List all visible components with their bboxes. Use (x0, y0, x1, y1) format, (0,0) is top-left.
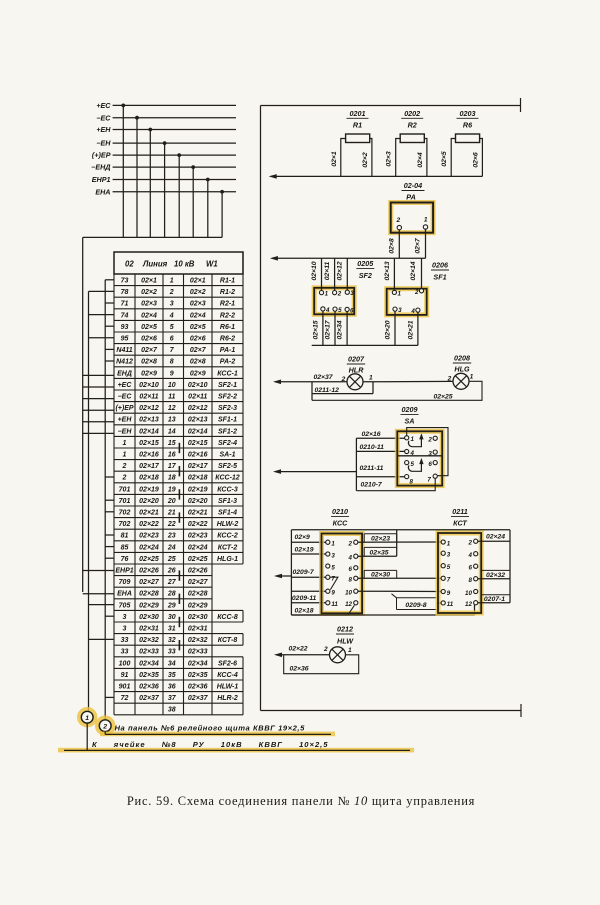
svg-text:6: 6 (428, 461, 432, 468)
terminal table W1 grid (114, 252, 243, 715)
resistor R6 0203 (441, 109, 482, 176)
wire resistor line with arrow (269, 174, 483, 179)
svg-text:11: 11 (447, 601, 454, 608)
svg-text:6: 6 (468, 565, 472, 572)
wire SF1 top leg 02x14 (410, 258, 422, 288)
svg-text:02×10: 02×10 (311, 261, 318, 280)
svg-text:1: 1 (398, 290, 402, 297)
wire KCC bundle stubs (291, 534, 347, 615)
svg-text:02×32: 02×32 (486, 572, 505, 579)
svg-text:0202: 0202 (404, 109, 420, 118)
wire cable note to panel 6 (100, 724, 335, 737)
svg-text:11: 11 (331, 601, 338, 608)
wire SF2 bottom leg 02×17 (324, 311, 335, 345)
svg-text:0209-7: 0209-7 (293, 569, 315, 576)
svg-text:10: 10 (345, 590, 352, 597)
wire bundle A (bus trunk down left side) (82, 237, 84, 592)
svg-text:2: 2 (102, 724, 107, 731)
svg-text:4: 4 (348, 555, 353, 562)
svg-text:SF1-4: SF1-4 (218, 510, 237, 517)
svg-text:1: 1 (325, 291, 329, 298)
svg-text:1: 1 (170, 278, 174, 285)
svg-text:02×21: 02×21 (188, 510, 208, 517)
svg-text:02×23: 02×23 (139, 533, 159, 540)
wire lower SF line (312, 344, 418, 346)
svg-text:701: 701 (119, 498, 131, 505)
svg-text:HLR-2: HLR-2 (217, 695, 238, 702)
svg-text:76: 76 (121, 556, 129, 563)
svg-text:33: 33 (121, 649, 129, 656)
svg-text:18: 18 (168, 475, 176, 482)
svg-text:3: 3 (398, 307, 402, 314)
svg-text:02×16: 02×16 (139, 452, 159, 459)
svg-text:23: 23 (167, 533, 176, 540)
meter PA 02-04 (391, 181, 433, 233)
svg-text:6: 6 (350, 307, 354, 314)
svg-text:3: 3 (170, 301, 174, 308)
svg-text:36: 36 (168, 684, 176, 691)
bus (+)ЕР (92, 151, 236, 238)
svg-text:02×32: 02×32 (139, 637, 159, 644)
svg-text:02×33: 02×33 (188, 649, 208, 656)
svg-text:КСС-4: КСС-4 (217, 672, 238, 679)
terminal table W1 header (114, 252, 243, 274)
svg-text:3: 3 (331, 552, 335, 559)
svg-text:8: 8 (349, 577, 353, 584)
svg-text:02×36: 02×36 (290, 665, 309, 672)
svg-text:02×12: 02×12 (337, 261, 344, 280)
svg-text:1: 1 (369, 375, 373, 382)
svg-text:02×25: 02×25 (188, 556, 208, 563)
svg-text:0211: 0211 (452, 507, 467, 516)
svg-text:1: 1 (85, 715, 89, 722)
breaker SF2 box (314, 288, 354, 315)
svg-text:КСС-3: КСС-3 (217, 486, 238, 493)
svg-text:02×13: 02×13 (188, 417, 208, 424)
svg-text:КСТ-8: КСТ-8 (218, 637, 238, 644)
svg-text:16: 16 (168, 452, 176, 459)
svg-text:31: 31 (168, 626, 176, 633)
svg-text:R6: R6 (463, 121, 473, 130)
svg-text:1: 1 (123, 440, 127, 447)
svg-text:02×17: 02×17 (188, 463, 209, 470)
wire SA bottom to terminal7 (356, 478, 435, 490)
svg-text:02×9: 02×9 (295, 534, 311, 541)
svg-text:02×23: 02×23 (188, 533, 208, 540)
svg-text:Линия: Линия (142, 260, 168, 269)
svg-text:1: 1 (470, 374, 474, 381)
svg-text:10: 10 (168, 382, 176, 389)
svg-text:02×19: 02×19 (188, 486, 208, 493)
wire SF2 top leg 02×10 (311, 258, 322, 290)
svg-text:02×16: 02×16 (362, 431, 381, 438)
svg-text:2: 2 (122, 463, 127, 470)
svg-text:R2: R2 (408, 121, 417, 130)
svg-text:R6-1: R6-1 (220, 324, 235, 331)
svg-text:02×29: 02×29 (139, 602, 159, 609)
svg-text:3: 3 (123, 614, 127, 621)
svg-text:SF1: SF1 (433, 272, 446, 281)
svg-text:0201: 0201 (350, 109, 366, 118)
svg-text:КСТ: КСТ (453, 518, 467, 527)
svg-text:02×15: 02×15 (188, 440, 208, 447)
svg-text:02×7: 02×7 (414, 237, 421, 254)
svg-text:SF2-1: SF2-1 (218, 382, 237, 389)
svg-text:02×5: 02×5 (441, 151, 448, 167)
svg-text:95: 95 (121, 336, 129, 343)
wire KCC10 to KCT9 (358, 590, 441, 592)
svg-text:КСС-12: КСС-12 (215, 475, 240, 482)
svg-text:28: 28 (167, 591, 176, 598)
lamp HLG 0208 (447, 354, 474, 390)
svg-text:HLW-1: HLW-1 (217, 684, 239, 691)
wire 02x32 KCT8 (478, 570, 510, 578)
svg-text:33: 33 (121, 637, 129, 644)
wire SF1 bottom leg 02x20 (384, 311, 395, 345)
svg-text:02×25: 02×25 (139, 556, 159, 563)
svg-text:0210: 0210 (332, 507, 348, 516)
svg-text:2: 2 (467, 540, 472, 547)
svg-text:1: 1 (424, 217, 428, 224)
svg-text:4: 4 (169, 312, 174, 319)
switch SA 0209 label (401, 405, 419, 425)
wire SF/PA line with arrow (270, 256, 426, 261)
wire SF2 top leg 02×11 (324, 258, 335, 290)
svg-text:ЕНА: ЕНА (95, 187, 110, 196)
svg-text:02×11: 02×11 (188, 394, 207, 401)
resistor R1 0201 (331, 109, 372, 176)
svg-text:02×24: 02×24 (188, 544, 208, 551)
svg-text:SF2: SF2 (359, 271, 372, 280)
svg-text:02×35: 02×35 (369, 549, 388, 556)
svg-text:РА-1: РА-1 (220, 347, 236, 354)
svg-text:5: 5 (170, 324, 174, 331)
svg-text:8: 8 (410, 478, 414, 485)
wire 02x35 from KCC4 (358, 530, 397, 557)
wire SF1 top leg 02x13 (384, 258, 395, 290)
wire HLW line with arrow 02x22 (274, 646, 330, 658)
svg-text:20: 20 (167, 498, 176, 505)
svg-text:24: 24 (167, 544, 176, 551)
svg-text:0211-11: 0211-11 (360, 465, 384, 472)
svg-text:Рис. 59. Схема соединения пане: Рис. 59. Схема соединения панели № 10 щи… (127, 794, 475, 808)
svg-text:02×20: 02×20 (188, 498, 208, 505)
svg-text:+ЕС: +ЕС (118, 382, 133, 389)
svg-text:R1-1: R1-1 (220, 278, 235, 285)
svg-text:SF2-4: SF2-4 (218, 440, 237, 447)
svg-text:0208: 0208 (454, 354, 470, 363)
bus ЕНР1 (92, 175, 236, 237)
svg-text:5: 5 (411, 461, 415, 468)
svg-text:12: 12 (345, 601, 352, 608)
svg-text:SF1-3: SF1-3 (218, 498, 237, 505)
svg-text:R2-2: R2-2 (220, 312, 235, 319)
svg-text:02: 02 (125, 260, 134, 269)
svg-text:02×14: 02×14 (139, 428, 159, 435)
svg-text:02×22: 02×22 (188, 521, 208, 528)
svg-text:0212: 0212 (337, 625, 353, 634)
svg-text:−ЕС: −ЕС (118, 394, 133, 401)
wire stubs bundle A to rows 9-14,26,28 (83, 375, 114, 593)
lamp HLR 0207 (341, 355, 373, 390)
svg-text:02×35: 02×35 (188, 672, 208, 679)
svg-text:02×10: 02×10 (188, 382, 208, 389)
svg-text:0203: 0203 (460, 109, 476, 118)
svg-text:2: 2 (337, 291, 342, 298)
svg-text:9: 9 (447, 590, 451, 597)
svg-text:27: 27 (167, 579, 177, 586)
svg-text:02×8: 02×8 (141, 359, 157, 366)
svg-text:02×3: 02×3 (190, 301, 206, 308)
svg-text:4: 4 (467, 552, 472, 559)
svg-text:3: 3 (123, 626, 127, 633)
svg-text:10 кВ: 10 кВ (174, 260, 195, 269)
svg-text:0207: 0207 (348, 355, 365, 364)
wire KCC jumper 7-9 (330, 577, 338, 589)
svg-text:85: 85 (121, 544, 129, 551)
svg-text:3: 3 (447, 552, 451, 559)
svg-text:02×21: 02×21 (139, 510, 159, 517)
svg-text:02×12: 02×12 (139, 405, 159, 412)
svg-text:02×14: 02×14 (410, 261, 417, 280)
svg-text:ЕНР1: ЕНР1 (115, 568, 133, 575)
lamp HLW 0212 label (336, 625, 354, 646)
svg-text:2: 2 (169, 289, 174, 296)
svg-text:РА-2: РА-2 (220, 359, 236, 366)
svg-text:3: 3 (350, 290, 354, 297)
svg-text:02×9: 02×9 (141, 370, 157, 377)
svg-text:R1: R1 (353, 121, 362, 130)
svg-text:34: 34 (168, 660, 176, 667)
svg-text:−ЕС: −ЕС (96, 113, 111, 122)
svg-text:HLW: HLW (337, 636, 354, 645)
svg-text:7: 7 (427, 477, 431, 484)
wire SF2 bottom leg 02×15 (312, 311, 323, 345)
relay KCC 0210 label (331, 507, 349, 527)
switch SA cam arrow top (408, 433, 423, 446)
svg-text:02×20: 02×20 (139, 498, 159, 505)
svg-text:1: 1 (123, 452, 127, 459)
svg-text:0209: 0209 (402, 405, 418, 414)
svg-text:02×3: 02×3 (141, 301, 157, 308)
svg-text:2: 2 (122, 475, 127, 482)
svg-text:HLG-1: HLG-1 (217, 556, 238, 563)
svg-text:02×34: 02×34 (139, 660, 159, 667)
svg-text:02×30: 02×30 (139, 614, 159, 621)
svg-text:02×30: 02×30 (188, 614, 208, 621)
svg-text:К ячейке №8 РУ 10кВ КВВГ 10×2,: К ячейке №8 РУ 10кВ КВВГ 10×2,5 (92, 740, 329, 749)
svg-text:8: 8 (170, 359, 174, 366)
breaker SF1 0206 label (431, 261, 449, 282)
wire 02x30 KCC8 to KCT7 (358, 570, 441, 578)
svg-text:4: 4 (410, 308, 415, 315)
svg-text:SF1-2: SF1-2 (218, 428, 237, 435)
resistor R2 0202 (386, 109, 427, 176)
svg-text:02×36: 02×36 (188, 684, 208, 691)
wire SF1 bottom leg 02x21 (407, 312, 418, 345)
svg-text:SF2-2: SF2-2 (218, 394, 237, 401)
svg-text:17: 17 (168, 463, 177, 470)
svg-text:02×7: 02×7 (141, 347, 158, 354)
jumper ticks between paired terminals (178, 443, 180, 651)
svg-text:5: 5 (331, 564, 335, 571)
breaker SF2 0205 label (356, 259, 374, 280)
wire stubs bundle C to rows 1,3,5,7,8,18,20,21,23,24,25,30,37 (105, 280, 114, 698)
svg-text:N411: N411 (116, 347, 132, 354)
svg-text:02×30: 02×30 (371, 572, 390, 579)
svg-text:HLW-2: HLW-2 (217, 521, 239, 528)
svg-text:02×21: 02×21 (407, 320, 414, 339)
svg-text:(+)ЕР: (+)ЕР (92, 151, 111, 160)
wire 02x23 KCC2 to KCT1 (358, 534, 441, 543)
svg-text:02×27: 02×27 (188, 579, 209, 586)
svg-text:КСТ-2: КСТ-2 (218, 544, 238, 551)
wire SF2 bottom leg 02×34 (337, 311, 348, 345)
wire top border line (261, 98, 521, 112)
svg-text:02×36: 02×36 (139, 684, 159, 691)
svg-text:709: 709 (119, 579, 131, 586)
wire bus collector (83, 236, 222, 238)
svg-text:02×24: 02×24 (486, 534, 505, 541)
svg-text:N412: N412 (116, 359, 133, 366)
svg-text:0211-12: 0211-12 (315, 387, 340, 394)
svg-text:02×2: 02×2 (141, 289, 157, 296)
bus −ЕС (96, 113, 236, 237)
wire top bundle line (291, 529, 510, 531)
svg-text:R6-2: R6-2 (220, 336, 235, 343)
svg-text:02×6: 02×6 (141, 336, 157, 343)
svg-text:02×22: 02×22 (289, 646, 308, 653)
terminal table W1 row texts (115, 278, 239, 714)
svg-text:02×20: 02×20 (384, 320, 391, 339)
svg-text:1: 1 (411, 436, 415, 443)
lamp HLW (323, 646, 352, 663)
svg-text:+ЕН: +ЕН (96, 125, 111, 134)
svg-text:702: 702 (119, 521, 131, 528)
svg-text:19: 19 (168, 486, 176, 493)
svg-text:02×1: 02×1 (331, 151, 338, 167)
svg-text:30: 30 (168, 614, 176, 621)
svg-text:7: 7 (447, 577, 451, 584)
svg-text:0210-7: 0210-7 (361, 482, 383, 489)
svg-text:25: 25 (167, 556, 176, 563)
svg-text:SA: SA (405, 416, 415, 425)
svg-text:81: 81 (121, 533, 129, 540)
svg-text:−ЕН: −ЕН (118, 428, 133, 435)
bus +ЕС (96, 101, 236, 237)
wire 0209-8 tag to KCT11 (392, 594, 442, 610)
svg-text:02×11: 02×11 (139, 394, 158, 401)
svg-text:SA-1: SA-1 (220, 452, 236, 459)
svg-text:02×37: 02×37 (314, 374, 334, 381)
svg-text:02×15: 02×15 (312, 320, 319, 339)
svg-text:−ЕН: −ЕН (96, 139, 111, 148)
svg-text:72: 72 (121, 695, 129, 702)
svg-text:100: 100 (119, 660, 131, 667)
svg-text:02×6: 02×6 (472, 152, 479, 168)
svg-text:ЕНД: ЕНД (117, 370, 132, 377)
svg-text:02×8: 02×8 (190, 359, 206, 366)
wire KCT right bundle (509, 530, 511, 603)
svg-text:21: 21 (167, 510, 176, 517)
svg-text:+ЕС: +ЕС (96, 101, 111, 110)
svg-text:SF2-6: SF2-6 (218, 660, 237, 667)
svg-text:9: 9 (170, 370, 174, 377)
wire bundle C (to circle 2) (104, 280, 106, 720)
svg-text:02×23: 02×23 (371, 535, 390, 542)
svg-text:35: 35 (168, 672, 176, 679)
svg-text:02×18: 02×18 (295, 608, 314, 615)
svg-text:74: 74 (121, 312, 129, 319)
svg-text:2: 2 (414, 289, 419, 296)
svg-text:R2-1: R2-1 (220, 301, 235, 308)
svg-text:02×34: 02×34 (337, 320, 344, 339)
svg-text:02×18: 02×18 (188, 475, 208, 482)
svg-text:93: 93 (121, 324, 129, 331)
svg-text:1: 1 (331, 541, 335, 548)
svg-text:02×4: 02×4 (141, 312, 157, 319)
svg-text:2: 2 (348, 541, 353, 548)
bus −ЕНД (91, 163, 236, 238)
svg-text:02×13: 02×13 (139, 417, 159, 424)
wire cable note to cell 8 (58, 723, 414, 752)
svg-text:701: 701 (119, 486, 131, 493)
svg-text:ЕНР1: ЕНР1 (92, 175, 111, 184)
wire 0211-12 tap (312, 382, 373, 401)
svg-text:02×2: 02×2 (362, 152, 369, 168)
wire stubs bundle B to rows 2,4,6,29,32 (89, 291, 115, 639)
svg-text:02×2: 02×2 (190, 289, 206, 296)
svg-text:702: 702 (119, 510, 131, 517)
svg-text:78: 78 (121, 289, 129, 296)
svg-text:КСС: КСС (333, 518, 349, 527)
svg-text:02×4: 02×4 (417, 152, 424, 168)
svg-text:02×16: 02×16 (188, 452, 208, 459)
svg-text:4: 4 (410, 450, 415, 457)
svg-text:02×14: 02×14 (188, 428, 208, 435)
svg-text:SF2-3: SF2-3 (218, 405, 237, 412)
svg-text:02×34: 02×34 (188, 660, 208, 667)
svg-text:14: 14 (168, 428, 176, 435)
svg-text:33: 33 (168, 649, 176, 656)
svg-text:6: 6 (170, 336, 174, 343)
svg-text:+ЕН: +ЕН (118, 417, 133, 424)
svg-text:5: 5 (338, 307, 342, 314)
svg-text:2: 2 (447, 375, 452, 382)
svg-text:02×35: 02×35 (139, 672, 159, 679)
bus +ЕН (96, 125, 236, 237)
wire 02x24 KCT2 (478, 534, 510, 542)
svg-text:0209-8: 0209-8 (405, 602, 426, 609)
svg-text:15: 15 (168, 440, 176, 447)
svg-text:71: 71 (121, 301, 129, 308)
svg-text:КСС-1: КСС-1 (217, 370, 238, 377)
svg-text:12: 12 (168, 405, 176, 412)
svg-text:02×12: 02×12 (188, 405, 208, 412)
svg-text:02×29: 02×29 (188, 602, 208, 609)
svg-text:02×5: 02×5 (190, 324, 206, 331)
svg-text:5: 5 (447, 564, 451, 571)
svg-text:705: 705 (119, 602, 131, 609)
wire bottom border line (261, 704, 522, 717)
bus ЕНА (95, 187, 236, 237)
svg-text:1: 1 (447, 540, 451, 547)
switch SA box (397, 431, 442, 485)
svg-text:2: 2 (395, 217, 400, 224)
svg-text:02×19: 02×19 (139, 486, 159, 493)
svg-text:2: 2 (323, 646, 328, 653)
svg-text:12: 12 (465, 601, 472, 608)
